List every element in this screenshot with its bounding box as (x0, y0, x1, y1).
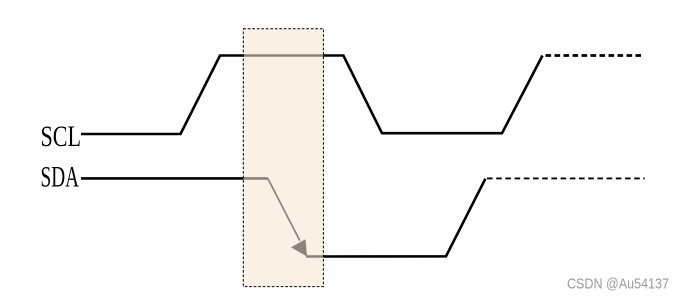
highlight box translucent fill (243, 29, 323, 287)
arrowhead (291, 239, 307, 256)
highlight box dashed border (243, 29, 323, 287)
svg-text:SDA: SDA (41, 161, 80, 194)
svg-text:SCL: SCL (41, 120, 82, 153)
SCL high-level dashed continuation (546, 54, 642, 57)
SDA high-level line (81, 177, 268, 180)
arrow shaft (SDA falling transition) (268, 178, 300, 240)
SDA high-level dashed continuation (487, 177, 645, 179)
svg-text:CSDN @Au54137: CSDN @Au54137 (567, 276, 669, 293)
SCL waveform solid polyline (81, 56, 543, 135)
SDA low level and rising edge (306, 179, 485, 257)
